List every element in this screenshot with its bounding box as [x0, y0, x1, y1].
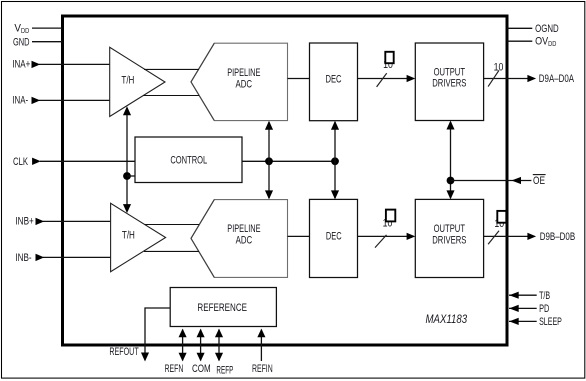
bus slash A out: [488, 70, 499, 86]
svg-text:ADC: ADC: [236, 235, 253, 247]
svg-text:DRIVERS: DRIVERS: [432, 234, 466, 246]
pin INB-: [15, 252, 110, 264]
DEC A: [310, 43, 358, 121]
pin INA+: [12, 59, 109, 71]
control block: [135, 137, 242, 183]
svg-text:OUTPUT: OUTPUT: [434, 223, 466, 235]
wire DEC B to OUTPUT DRIVERS B: [358, 233, 416, 240]
output drivers B: [415, 199, 483, 277]
pin SLEEP: [509, 316, 562, 328]
svg-text:CLK: CLK: [13, 156, 28, 168]
bus slash A mid: [377, 73, 387, 87]
svg-text:T/H: T/H: [122, 229, 135, 241]
wire T/H A to ADC A differential pair: [143, 69, 199, 95]
svg-text:INB+: INB+: [15, 216, 33, 228]
wire control to ADC A / ADC B: [265, 121, 273, 200]
artifact square marker (A mid): [385, 52, 393, 63]
bus slash B out: [488, 231, 499, 245]
svg-text:ADC: ADC: [236, 79, 253, 91]
svg-text:INA-: INA-: [12, 95, 28, 107]
chip boundary MAX1183: [63, 16, 508, 345]
wire OUTPUT DRIVERS A to D9A-D0A pin: [484, 75, 536, 82]
svg-text:D9B–D0B: D9B–D0B: [540, 231, 576, 243]
wire control to DEC A / DEC B: [331, 121, 339, 200]
svg-text:DEC: DEC: [326, 230, 342, 242]
pin PD: [509, 303, 549, 315]
pin CLK: [13, 156, 135, 168]
pin OVDD: [507, 36, 556, 49]
pin VDD: [14, 23, 62, 36]
svg-text:PD: PD: [539, 303, 549, 315]
svg-text:REFERENCE: REFERENCE: [197, 302, 247, 314]
svg-text:REFOUT: REFOUT: [109, 346, 138, 358]
pin INB+: [15, 216, 110, 228]
svg-text:PIPELINE: PIPELINE: [227, 223, 260, 235]
svg-text:T/H: T/H: [121, 75, 134, 87]
wire ADC A to DEC A: [288, 78, 310, 80]
svg-text:INB-: INB-: [15, 252, 31, 264]
junction dot at DEC coupling: [331, 157, 339, 165]
svg-text:T/B: T/B: [539, 290, 550, 302]
svg-text:PIPELINE: PIPELINE: [227, 67, 260, 79]
pin COM: [192, 329, 211, 375]
wire DEC A to OUTPUT DRIVERS A: [358, 75, 416, 82]
bus slash B mid: [375, 235, 387, 248]
wire ADC B to DEC B: [288, 235, 310, 237]
artifact square marker (B mid): [386, 210, 395, 222]
pin OGND: [507, 23, 559, 35]
svg-text:CONTROL: CONTROL: [170, 154, 207, 166]
pin INA-: [12, 95, 109, 107]
svg-text:GND: GND: [13, 37, 30, 49]
junction dot on clock line: [123, 172, 131, 180]
pin REFP: [215, 329, 233, 377]
svg-text:DEC: DEC: [325, 74, 341, 86]
pin REFN: [165, 329, 187, 375]
T/H amplifier A: [110, 47, 165, 116]
pipeline ADC A: [191, 43, 288, 120]
svg-text:SLEEP: SLEEP: [539, 316, 562, 328]
svg-text:10: 10: [494, 61, 504, 73]
svg-text:OUTPUT: OUTPUT: [434, 66, 466, 78]
junction dot at ADC coupling: [265, 157, 273, 165]
T/H amplifier B: [111, 203, 166, 271]
svg-text:MAX1183: MAX1183: [426, 312, 468, 326]
wire OUTPUT DRIVERS B to D9B-D0B pin: [484, 233, 536, 240]
pipeline ADC B: [191, 200, 288, 278]
output drivers A: [415, 43, 483, 121]
svg-text:REFN: REFN: [165, 363, 184, 375]
clock distribution line to T/H A and T/H B: [123, 106, 131, 213]
reference block: [170, 288, 276, 327]
svg-text:INA+: INA+: [12, 59, 30, 71]
wire junction to CONTROL: [127, 175, 135, 177]
svg-text:COM: COM: [192, 363, 211, 375]
wire T/H B to ADC B differential pair: [144, 225, 199, 252]
pin OE (active low): [451, 175, 546, 188]
pin REFOUT: [109, 308, 170, 362]
junction dot on OE line: [447, 177, 455, 185]
pin REFIN: [252, 329, 273, 375]
svg-text:REFIN: REFIN: [252, 363, 273, 375]
svg-text:OE: OE: [533, 175, 545, 187]
artifact square marker (B out): [497, 211, 506, 223]
svg-text:D9A–D0A: D9A–D0A: [539, 73, 575, 85]
svg-text:DRIVERS: DRIVERS: [432, 78, 466, 90]
pin GND: [13, 37, 62, 49]
control bus horizontal wire: [242, 160, 335, 162]
svg-text:OGND: OGND: [535, 23, 559, 35]
svg-text:REFP: REFP: [216, 364, 233, 376]
wire OE to OUTPUT DRIVERS A / B: [446, 121, 454, 200]
DEC B: [310, 199, 358, 277]
pin T/B: [509, 290, 550, 302]
